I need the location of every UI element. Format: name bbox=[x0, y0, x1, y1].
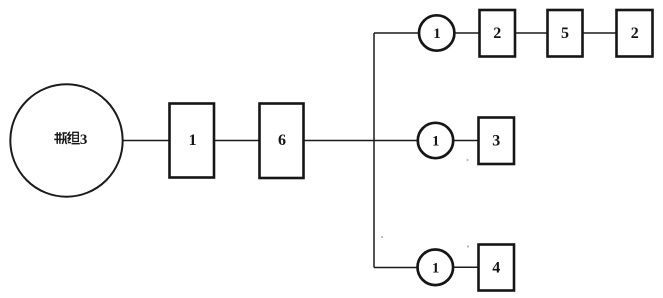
top circle 1 bbox=[419, 15, 454, 50]
svg-text:1: 1 bbox=[432, 134, 440, 150]
svg-text:6: 6 bbox=[278, 132, 286, 149]
bottle group circle 瓶组3 bbox=[10, 84, 122, 196]
box 1 bbox=[170, 104, 215, 178]
wire: box 2 to box 5 bbox=[515, 32, 547, 34]
box 6 bbox=[260, 104, 304, 179]
label 瓶组3: glyph 组 bbox=[68, 132, 80, 144]
wire: trunk to top circle bbox=[374, 32, 419, 34]
scan speck near box 3 bbox=[466, 159, 468, 161]
wire: box 1 to box 6 bbox=[214, 140, 259, 142]
box 3 bbox=[479, 118, 515, 165]
label 瓶组3: glyph 瓶 bbox=[54, 132, 67, 144]
wire: circle to box 1 bbox=[123, 140, 170, 142]
scan speck near bottom elbow bbox=[381, 236, 383, 238]
wire: box 5 to box 2 (second) bbox=[583, 32, 617, 34]
box 5 bbox=[548, 10, 583, 57]
svg-text:1: 1 bbox=[189, 132, 197, 149]
bottom circle 1 bbox=[418, 249, 454, 285]
wire: trunk elbow to bottom circle bbox=[374, 267, 418, 269]
wire: bottom circle to box 4 bbox=[453, 266, 478, 268]
box 2 (second) bbox=[617, 10, 653, 57]
wire: box 6 to middle circle (crosses trunk) bbox=[304, 140, 419, 142]
wire: middle circle to box 3 bbox=[453, 140, 478, 142]
svg-text:4: 4 bbox=[492, 260, 500, 277]
svg-text:3: 3 bbox=[492, 133, 500, 150]
svg-text:1: 1 bbox=[433, 26, 441, 42]
svg-text:1: 1 bbox=[432, 260, 440, 276]
svg-text:2: 2 bbox=[493, 25, 501, 42]
scan speck left of box 4 bbox=[467, 245, 469, 247]
box 2 (first) bbox=[480, 10, 516, 57]
trunk wire vertical bbox=[373, 33, 375, 268]
svg-text:3: 3 bbox=[80, 132, 88, 148]
svg-text:2: 2 bbox=[631, 25, 639, 42]
svg-text:5: 5 bbox=[561, 25, 569, 42]
wire: top circle to box 2 bbox=[455, 32, 480, 34]
middle circle 1 bbox=[418, 123, 453, 158]
box 4 bbox=[479, 245, 515, 291]
